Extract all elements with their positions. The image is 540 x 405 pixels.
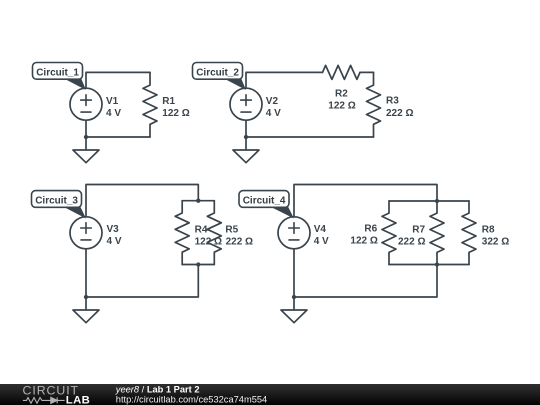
resistor R4: [175, 201, 189, 265]
wire: V4 bottom lead: [293, 250, 295, 297]
svg-text:R1: R1: [162, 96, 175, 107]
svg-text:R2: R2: [335, 88, 348, 99]
node: junction at parallel top (C4): [435, 199, 439, 203]
svg-text:122 Ω: 122 Ω: [195, 236, 222, 247]
value label R7: [398, 224, 426, 247]
wire: Circuit 4 bottom rail: [294, 265, 437, 298]
wire: V1 bottom lead: [85, 121, 87, 137]
node: junction at parallel bottom (C3): [196, 262, 200, 266]
svg-text:4 V: 4 V: [106, 108, 121, 119]
svg-text:LAB: LAB: [66, 394, 90, 405]
node: junction at V1 bottom: [84, 135, 88, 139]
svg-text:322 Ω: 322 Ω: [482, 236, 509, 247]
wire: Circuit 3 parallel bottom bus: [182, 264, 214, 266]
svg-text:yeer8 / Lab 1 Part 2: yeer8 / Lab 1 Part 2: [115, 384, 200, 394]
svg-text:R7: R7: [412, 224, 425, 235]
svg-text:V2: V2: [266, 96, 279, 107]
label Circuit_2: [193, 63, 247, 91]
value label R1: [162, 96, 189, 119]
value label V2: [266, 96, 281, 119]
svg-text:222 Ω: 222 Ω: [386, 108, 413, 119]
svg-text:222 Ω: 222 Ω: [226, 236, 253, 247]
resistor R8: [462, 201, 476, 265]
value label V1: [106, 96, 121, 119]
node: junction at V4 bottom: [292, 295, 296, 299]
wire: V3 bottom lead: [85, 250, 87, 297]
value label R2: [328, 88, 355, 111]
wire: Circuit 1 top rail: [86, 72, 150, 88]
resistor R1: [143, 72, 157, 137]
svg-text:122 Ω: 122 Ω: [328, 100, 355, 111]
wire: Circuit 4 parallel bottom bus: [389, 264, 469, 266]
svg-text:http://circuitlab.com/ce532ca7: http://circuitlab.com/ce532ca74m554: [116, 394, 267, 404]
svg-text:222 Ω: 222 Ω: [398, 236, 425, 247]
wire: Circuit 2 bottom rail: [246, 136, 374, 138]
wire: V2 bottom lead: [245, 121, 247, 137]
value label R6: [350, 223, 377, 246]
svg-text:V4: V4: [314, 224, 327, 235]
value label R4: [195, 224, 222, 247]
label Circuit_1: [33, 63, 87, 91]
value label R3: [386, 96, 413, 120]
ground: Circuit 3: [73, 297, 99, 323]
label Circuit_3: [32, 191, 87, 219]
ground: Circuit 2: [233, 137, 259, 163]
voltage source V4: [278, 217, 310, 249]
svg-text:Circuit_4: Circuit_4: [243, 195, 286, 206]
wire: Circuit 3 parallel top bus: [182, 200, 214, 202]
node: junction at parallel top (C3): [196, 199, 200, 203]
wire: Circuit 3 bottom rail: [86, 265, 198, 298]
wire: Circuit 4 parallel top bus: [389, 200, 469, 202]
resistor R3: [367, 72, 381, 137]
node: junction at parallel bottom (C4): [435, 262, 439, 266]
voltage source V2: [230, 88, 262, 120]
value label R5: [225, 224, 253, 247]
wire: Circuit 2 top rail left: [246, 72, 323, 88]
resistor R2: [323, 65, 361, 79]
svg-text:V3: V3: [107, 224, 120, 235]
svg-text:R4: R4: [195, 224, 208, 235]
svg-text:4 V: 4 V: [266, 108, 281, 119]
value label V4: [314, 224, 329, 247]
wire: Circuit 2 top rail right: [360, 71, 374, 73]
svg-text:Circuit_2: Circuit_2: [196, 67, 239, 78]
ground: Circuit 4: [281, 297, 307, 323]
label Circuit_4: [239, 191, 294, 219]
resistor R5: [207, 201, 221, 265]
wire: Circuit 3 top rail: [86, 185, 198, 218]
wire: Circuit 1 bottom rail: [86, 136, 150, 138]
wire: Circuit 4 top rail: [294, 185, 437, 218]
value label R8: [482, 224, 509, 247]
svg-text:V1: V1: [106, 96, 119, 107]
node: junction at V3 bottom: [84, 295, 88, 299]
resistor R6: [382, 201, 396, 265]
node: junction at V2 bottom: [244, 135, 248, 139]
svg-text:R5: R5: [225, 224, 238, 235]
value label V3: [107, 224, 122, 247]
svg-text:Circuit_3: Circuit_3: [35, 195, 78, 206]
svg-text:4 V: 4 V: [314, 236, 329, 247]
voltage source V1: [70, 88, 102, 120]
logo resistor-diode glyph: [23, 397, 65, 403]
svg-text:R3: R3: [386, 96, 399, 107]
voltage source V3: [70, 217, 102, 249]
svg-text:4 V: 4 V: [107, 236, 122, 247]
svg-text:R6: R6: [364, 223, 377, 234]
svg-text:122 Ω: 122 Ω: [162, 108, 189, 119]
ground: Circuit 1: [73, 137, 99, 163]
svg-text:Circuit_1: Circuit_1: [36, 67, 79, 78]
resistor R7: [430, 201, 444, 265]
svg-text:R8: R8: [482, 224, 495, 235]
svg-text:122 Ω: 122 Ω: [350, 235, 377, 246]
